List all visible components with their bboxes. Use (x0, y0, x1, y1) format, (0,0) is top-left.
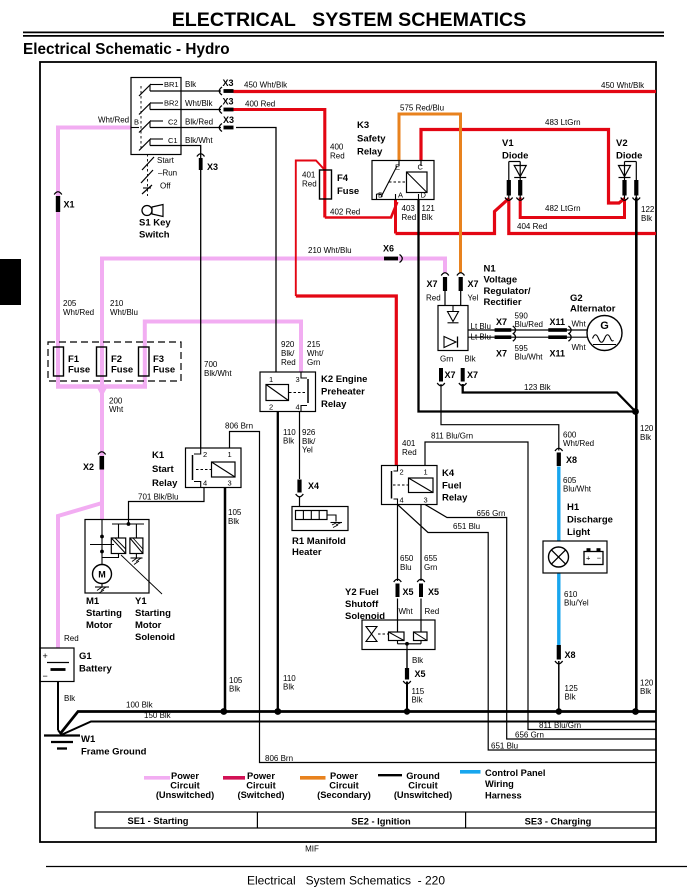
svg-text:W1: W1 (81, 734, 96, 745)
svg-text:Red: Red (426, 294, 441, 303)
fuse output bus (56, 384, 147, 389)
wire 402 Red from F4 to K3 pin A (325, 202, 398, 218)
wire 806 Brn from K1 pin 1 (230, 432, 657, 763)
svg-text:483 LtGrn: 483 LtGrn (545, 118, 581, 127)
svg-text:450 Wht/Blk: 450 Wht/Blk (244, 81, 288, 90)
svg-text:3: 3 (228, 479, 232, 488)
svg-text:Wht: Wht (399, 607, 414, 616)
V2 connector pins (622, 180, 626, 196)
svg-text:400: 400 (330, 143, 344, 152)
svg-text:–Run: –Run (158, 169, 177, 178)
svg-text:V1: V1 (502, 138, 514, 149)
wire N1 top pin leads (444, 291, 446, 306)
N1 regulator symbol (444, 337, 456, 348)
svg-text:Wht/Red: Wht/Red (98, 116, 129, 125)
S1 B terminal stub (131, 127, 139, 129)
svg-text:X6: X6 (383, 244, 394, 254)
svg-text:X7: X7 (445, 370, 456, 380)
S1 contact rows (150, 84, 163, 86)
svg-text:X5: X5 (403, 587, 414, 597)
svg-text:X4: X4 (308, 481, 319, 491)
Y2 coil Wht side (389, 632, 405, 641)
svg-text:Wht/: Wht/ (307, 349, 324, 358)
svg-text:SE2 - Ignition: SE2 - Ignition (351, 817, 411, 827)
svg-text:K1: K1 (152, 450, 165, 461)
svg-text:Blk: Blk (640, 687, 652, 696)
svg-text:1: 1 (228, 450, 232, 459)
wire Blk/Red from S1 C2 to X3 (150, 127, 221, 129)
wire Blk/Wht 700 from S1 C1 to K1 pin 2 (150, 146, 201, 449)
ground bus junctions (220, 708, 227, 715)
svg-text:Blu/Wht: Blu/Wht (515, 353, 544, 362)
svg-text:+: + (586, 554, 591, 563)
svg-text:Grn: Grn (440, 355, 453, 364)
svg-text:Preheater: Preheater (321, 386, 365, 397)
diode V2 (624, 162, 626, 200)
legend power circuit switched (223, 776, 245, 780)
lamp H1 discharge light box (543, 541, 607, 573)
svg-text:E: E (395, 163, 400, 172)
svg-text:X3: X3 (223, 97, 234, 107)
svg-text:Harness: Harness (485, 790, 522, 800)
svg-text:Starting: Starting (135, 608, 171, 619)
schematic frame (40, 62, 656, 842)
connector X8 lower (557, 645, 561, 660)
relay K1 start relay box (186, 448, 242, 488)
wire 125 Blk from X8 to ground bus (558, 661, 560, 712)
svg-text:Circuit: Circuit (329, 781, 358, 791)
svg-text:656 Grn: 656 Grn (515, 731, 544, 740)
svg-text:Alternator: Alternator (570, 304, 616, 315)
svg-text:Blk: Blk (283, 437, 295, 446)
svg-text:Fuse: Fuse (111, 365, 133, 376)
svg-text:Blk: Blk (465, 355, 477, 364)
Y1 ground symbol (135, 554, 137, 558)
wire Blk battery negative to frame ground (57, 682, 59, 731)
Y2 coil Red side (414, 632, 428, 641)
svg-text:Solenoid: Solenoid (135, 632, 175, 643)
svg-text:Lt Blu: Lt Blu (471, 333, 491, 342)
svg-text:F2: F2 (111, 354, 122, 365)
connector X7 Blk below N1 (461, 368, 465, 382)
wire 575 Red/Blu from K3 pin E to X7 Yel (399, 114, 461, 273)
svg-text:1: 1 (269, 375, 273, 384)
svg-text:3: 3 (296, 375, 300, 384)
svg-text:Electrical System Schematics: Electrical System Schematics - 220 (247, 874, 445, 888)
svg-text:X11: X11 (550, 349, 566, 359)
svg-text:401: 401 (302, 171, 316, 180)
svg-text:651 Blu: 651 Blu (491, 742, 518, 751)
svg-text:F4: F4 (337, 173, 349, 184)
svg-text:Light: Light (567, 527, 591, 538)
svg-text:−: − (597, 554, 602, 563)
svg-text:K4: K4 (442, 468, 455, 479)
svg-text:811 Blu/Grn: 811 Blu/Grn (431, 432, 473, 441)
wire 200 Wht branch to battery (58, 503, 102, 648)
svg-text:(Unswitched): (Unswitched) (156, 790, 214, 800)
svg-text:(Switched): (Switched) (237, 790, 284, 800)
svg-text:400 Red: 400 Red (245, 100, 275, 109)
svg-text:205: 205 (63, 299, 77, 308)
svg-text:X7: X7 (468, 279, 479, 289)
svg-text:D: D (421, 191, 427, 200)
svg-text:926: 926 (302, 428, 316, 437)
svg-text:G2: G2 (570, 293, 583, 304)
svg-text:Red: Red (425, 607, 440, 616)
wire 115 Blk from X5 to ground bus (406, 682, 408, 712)
svg-text:215: 215 (307, 340, 321, 349)
fuse F1 (54, 347, 64, 376)
svg-text:Heater: Heater (292, 547, 322, 558)
wire Red from X5 to Y2 (420, 599, 422, 633)
svg-text:811 Blu/Grn: 811 Blu/Grn (539, 721, 581, 730)
wire 483 LtGrn from K3 pin C to V2 diode (421, 130, 625, 204)
svg-text:Red: Red (402, 213, 417, 222)
svg-text:Blk/Red: Blk/Red (185, 118, 213, 127)
svg-text:100 Blk: 100 Blk (126, 701, 154, 710)
svg-text:Fuse: Fuse (68, 365, 90, 376)
svg-text:Solenoid: Solenoid (345, 611, 385, 622)
wire 100 Blk ground bus (60, 712, 656, 735)
wire Blk/Red from X3 to K2 pin 1 (236, 128, 276, 373)
svg-text:Start: Start (157, 156, 175, 165)
svg-text:Blk/: Blk/ (302, 437, 316, 446)
K4 dashed link (393, 484, 408, 486)
svg-text:X3: X3 (207, 162, 218, 172)
wire 215 Wht/Grn from F3 to K2 pin 3 (145, 322, 301, 389)
svg-text:401: 401 (402, 439, 416, 448)
connector X3 C2 (224, 126, 234, 130)
wire 200 Wht to X2 and starter (100, 388, 104, 520)
svg-text:920: 920 (281, 340, 295, 349)
svg-text:Blk: Blk (640, 433, 652, 442)
connector X6 on 210 Wht/Blu (384, 257, 398, 261)
footer rule (46, 866, 687, 868)
svg-text:Discharge: Discharge (567, 515, 613, 526)
svg-text:Blk: Blk (641, 214, 653, 223)
connector X4 (297, 480, 301, 493)
connector X7 bars on Lt Blu wires (495, 328, 512, 332)
svg-text:Circuit: Circuit (170, 781, 199, 791)
svg-text:Circuit: Circuit (246, 781, 275, 791)
svg-text:Red: Red (402, 448, 417, 457)
svg-text:210: 210 (110, 299, 124, 308)
K3 pin ticks (398, 161, 400, 167)
N1 diode symbol (452, 306, 454, 312)
K1 dashed link (196, 469, 211, 471)
svg-text:Blu/Wht: Blu/Wht (563, 485, 592, 494)
Y2 valve symbol (366, 627, 377, 635)
svg-text:K2 Engine: K2 Engine (321, 374, 367, 385)
svg-text:105: 105 (228, 508, 242, 517)
wire 610 Blu/Yel from H1 to X8 (557, 573, 560, 645)
svg-text:X7: X7 (496, 317, 507, 327)
svg-text:Blk/Wht: Blk/Wht (204, 369, 232, 378)
fuse block dashed outline (48, 342, 181, 381)
relay K4 fuel relay box (382, 466, 438, 505)
svg-text:X3: X3 (223, 115, 234, 125)
connector X8 upper (557, 453, 561, 467)
svg-text:B: B (378, 191, 383, 200)
svg-text:Circuit: Circuit (408, 781, 437, 791)
svg-text:Frame Ground: Frame Ground (81, 747, 147, 758)
wire 205 Wht/Red through F1 fuse to bus (56, 347, 60, 388)
wire Blk from Y2 to X5 (406, 650, 408, 669)
svg-text:Blk: Blk (185, 80, 197, 89)
solenoid Y2 fuel shutoff box (362, 620, 435, 650)
svg-text:Wiring: Wiring (485, 779, 514, 789)
svg-text:Y2 Fuel: Y2 Fuel (345, 587, 379, 598)
svg-text:402 Red: 402 Red (330, 208, 360, 217)
svg-text:A: A (398, 191, 403, 200)
wire 600 Wht/Red from N1 Grn to X8 (441, 384, 559, 451)
R1 heater element (296, 511, 328, 520)
svg-text:2: 2 (269, 403, 273, 412)
svg-text:ELECTRICAL SYSTEM SCHEMATICS: ELECTRICAL SYSTEM SCHEMATICS (172, 9, 527, 31)
wire Lt Blu upper to G2 (468, 329, 588, 331)
fuse F4 (320, 170, 332, 199)
legend power circuit unswitched (144, 776, 170, 780)
legend control panel wiring harness (460, 770, 481, 774)
wire 482 LtGrn from V1 to V2 (520, 198, 624, 218)
wire 450 Wht/Blk top feed (234, 90, 657, 93)
K3 coil (407, 172, 428, 193)
title double rule (23, 31, 664, 33)
svg-text:Red: Red (281, 358, 296, 367)
svg-text:Y1: Y1 (135, 596, 147, 607)
svg-text:Motor: Motor (86, 620, 113, 631)
alternator G2 (587, 316, 622, 351)
svg-text:Power: Power (247, 771, 275, 781)
svg-text:Yel: Yel (302, 446, 313, 455)
svg-text:X7: X7 (427, 279, 438, 289)
svg-text:123 Blk: 123 Blk (524, 383, 552, 392)
svg-text:Safety: Safety (357, 133, 386, 144)
K2 contact (307, 379, 309, 403)
svg-text:Start: Start (152, 464, 174, 475)
svg-text:(Unswitched): (Unswitched) (394, 790, 452, 800)
svg-text:120: 120 (640, 424, 654, 433)
wire 105 Blk from K1 pin 3 to ground bus (224, 488, 227, 712)
wire Lt Blu lower to G2 (468, 336, 588, 338)
svg-text:G: G (600, 320, 609, 332)
solenoid Y1 coils (127, 522, 131, 526)
svg-text:Relay: Relay (357, 147, 383, 158)
svg-text:Switch: Switch (139, 230, 170, 241)
svg-text:Relay: Relay (321, 399, 347, 410)
svg-text:Blk: Blk (228, 517, 240, 526)
ground node junction (632, 408, 639, 415)
wire 926 Blk/Yel from K2 pin 4 to X4 (299, 412, 301, 480)
wire 811 Blu/Grn from K4 pin 1 (425, 442, 656, 730)
svg-text:Lt Blu: Lt Blu (471, 322, 491, 331)
svg-text:Red: Red (302, 180, 317, 189)
svg-text:S1 Key: S1 Key (139, 218, 171, 229)
svg-text:404 Red: 404 Red (517, 222, 547, 231)
ground W1 frame ground symbol (44, 734, 80, 736)
K3 dashed link (389, 181, 406, 183)
svg-text:Blk: Blk (412, 696, 424, 705)
svg-text:3: 3 (424, 496, 428, 505)
svg-text:Electrical Schematic - Hydro: Electrical Schematic - Hydro (23, 41, 230, 58)
svg-text:Ground: Ground (406, 771, 440, 781)
wire 123 Blk from N1 to ground node (463, 384, 635, 411)
svg-text:1: 1 (424, 468, 428, 477)
svg-text:M1: M1 (86, 596, 100, 607)
svg-text:Voltage: Voltage (484, 275, 518, 286)
wire 401 Red thin from F4 top (296, 161, 325, 297)
wire 605 Blu/Wht from X8 to H1 (557, 467, 560, 542)
connector X5 Blk (405, 668, 409, 680)
svg-text:655: 655 (424, 554, 438, 563)
svg-text:482 LtGrn: 482 LtGrn (545, 204, 581, 213)
wire 403 Red below K3 pin A (394, 200, 397, 234)
svg-text:X2: X2 (83, 462, 94, 472)
legend power circuit secondary (300, 776, 326, 780)
wire 651 Blu from K4 pin 4 (398, 505, 657, 751)
svg-text:Wht/Red: Wht/Red (63, 308, 94, 317)
S1 key symbol (142, 206, 152, 216)
wire 110 Blk from K2 pin 2 to ground bus (277, 412, 279, 712)
M1 ground symbol (101, 584, 103, 587)
svg-text:150 Blk: 150 Blk (144, 711, 172, 720)
Y1 label pointer (121, 555, 162, 594)
svg-text:X7: X7 (496, 349, 507, 359)
wire Wht/Blk from S1 BR2 to X3 (150, 109, 221, 111)
svg-text:701 Blk/Blu: 701 Blk/Blu (138, 493, 178, 502)
connector X7 Red (443, 277, 447, 291)
wire 200 Wht F2 branch vertical (100, 259, 104, 389)
svg-text:Starting: Starting (86, 608, 122, 619)
svg-text:G1: G1 (79, 651, 92, 662)
svg-text:Fuel: Fuel (442, 480, 462, 491)
svg-text:Motor: Motor (135, 620, 162, 631)
battery G1 (40, 648, 74, 682)
svg-text:Blk: Blk (412, 656, 424, 665)
K3 switch blade (381, 166, 397, 197)
K1 contact (192, 455, 194, 480)
wire 701 Blk/Blu from K1 pin 4 to Y1 (129, 488, 205, 525)
K4 contact (391, 471, 393, 499)
svg-text:Blu: Blu (400, 563, 412, 572)
svg-text:Blk: Blk (565, 693, 577, 702)
svg-text:Diode: Diode (502, 151, 528, 162)
wire 401 Red to K4 fuel relay pin 2 (296, 296, 397, 466)
left margin black tab (0, 259, 21, 305)
svg-text:Diode: Diode (616, 151, 642, 162)
svg-text:X11: X11 (550, 317, 566, 327)
svg-text:N1: N1 (484, 264, 497, 275)
svg-text:Yel: Yel (468, 294, 479, 303)
connector X3 C1 vertical (199, 158, 203, 170)
svg-text:BR1: BR1 (164, 80, 179, 89)
switch S1 key switch box (131, 78, 181, 155)
svg-text:2: 2 (203, 450, 207, 459)
svg-text:4: 4 (203, 479, 207, 488)
svg-text:Wht/Red: Wht/Red (563, 439, 594, 448)
svg-text:Wht: Wht (572, 343, 587, 352)
R1 element ground lead (327, 515, 336, 522)
svg-text:H1: H1 (567, 502, 580, 513)
svg-text:Battery: Battery (79, 664, 112, 675)
resistor R1 manifold heater box (292, 507, 348, 531)
svg-text:Relay: Relay (152, 478, 178, 489)
svg-text:2: 2 (400, 468, 404, 477)
K2 dashed link (289, 392, 305, 394)
Y2 dashed link (378, 633, 388, 635)
motor M1 starting motor box (85, 520, 149, 594)
svg-text:Wht: Wht (572, 320, 587, 329)
svg-text:Blk/: Blk/ (281, 349, 295, 358)
S1 mechanical linkage dashed (140, 86, 142, 150)
svg-text:4: 4 (400, 496, 404, 505)
S1 selector positions (147, 154, 149, 196)
svg-text:Blk: Blk (229, 685, 241, 694)
M1 motor symbol (101, 552, 103, 565)
wire 404 Red continues to frame edge (509, 199, 656, 234)
svg-text:SE1 - Starting: SE1 - Starting (128, 816, 189, 826)
section table SE1 SE2 SE3 (95, 812, 656, 828)
connector X1 (56, 196, 60, 212)
svg-text:Wht/Blu: Wht/Blu (110, 308, 138, 317)
svg-text:Power: Power (171, 771, 199, 781)
Y2 output bus (397, 641, 399, 644)
connector X5 Red (419, 584, 423, 598)
connector X5 Wht (396, 584, 400, 598)
legend ground circuit unswitched (378, 774, 402, 776)
relay K3 safety relay box (372, 161, 434, 200)
svg-text:Relay: Relay (442, 493, 468, 504)
svg-text:651 Blu: 651 Blu (453, 522, 480, 531)
svg-text:700: 700 (204, 360, 218, 369)
K2 coil (266, 385, 289, 401)
wire Blk from S1 BR1 to X3 (150, 90, 221, 92)
relay K2 engine preheater relay box (260, 372, 316, 412)
svg-text:X1: X1 (64, 200, 75, 210)
svg-text:SE3 - Charging: SE3 - Charging (525, 817, 592, 827)
svg-text:X8: X8 (565, 650, 576, 660)
wire X4 to R1 heater (299, 497, 301, 508)
svg-text:−: − (43, 671, 48, 681)
svg-text:210 Wht/Blu: 210 Wht/Blu (308, 246, 352, 255)
wire 210 Wht/Blu horizontal to X7 (102, 259, 445, 273)
svg-text:122: 122 (641, 205, 655, 214)
fuse F3 (139, 347, 150, 376)
M1 contact bar (90, 544, 114, 546)
H1 lamp symbol (549, 547, 569, 567)
svg-text:X8: X8 (566, 455, 577, 465)
wire 400 Red from X3 through F4 fuse (234, 110, 325, 218)
svg-text:X3: X3 (223, 78, 234, 88)
wire 404 Red to V1 diode (396, 199, 509, 234)
svg-text:Rectifier: Rectifier (484, 297, 522, 308)
svg-text:Shutoff: Shutoff (345, 599, 379, 610)
connector X3 BR1 (224, 89, 234, 93)
svg-text:Blu/Yel: Blu/Yel (564, 599, 589, 608)
wire 650 Blu from K4 pin 4 to X5 (397, 505, 399, 582)
svg-text:R1 Manifold: R1 Manifold (292, 536, 346, 547)
svg-text:Control Panel: Control Panel (485, 768, 545, 778)
svg-text:Off: Off (160, 182, 171, 191)
svg-text:Grn: Grn (424, 563, 437, 572)
K1 coil (212, 462, 236, 477)
svg-text:(Secondary): (Secondary) (317, 790, 371, 800)
M1 feed lead (101, 520, 103, 537)
svg-text:X5: X5 (428, 587, 439, 597)
connector X3 BR2 (224, 108, 234, 112)
svg-text:Grn: Grn (307, 358, 320, 367)
svg-text:Blk: Blk (422, 213, 434, 222)
